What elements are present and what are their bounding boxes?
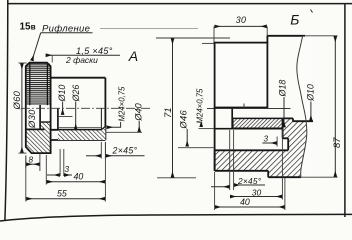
dimension 2×45° (A) [100,142,102,159]
svg-text:Ø10: Ø10 [57,85,67,103]
dimension 87 [334,36,336,176]
dimension 3 (Б) [276,137,278,147]
svg-text:40: 40 [240,197,250,207]
head outline strokes [26,63,51,154]
thread groove right wall [57,109,59,130]
svg-text:55: 55 [57,188,67,198]
small tick near Б [311,10,313,13]
svg-text:2×45°: 2×45° [112,146,138,156]
dimension 2×45° (Б) [229,130,231,190]
svg-text:А: А [128,48,138,64]
svg-text:M24×0,75: M24×0,75 [196,88,205,124]
Ø30 bore bottom line [26,128,45,130]
dimension 3 (A) [59,149,61,176]
svg-text:Ø40: Ø40 [133,102,143,121]
housing mass (sectioned, broken by wavy line) [215,118,309,177]
svg-text:Ø26: Ø26 [71,85,81,103]
dimension 30 (top) [213,26,215,44]
dimension 40 (Б bottom) [284,178,286,210]
housing top edge right of neck [266,36,268,43]
white mask right of break line [297,37,313,178]
Ø10 hole silhouette line [58,116,73,118]
dimension 40 (A) [45,155,47,185]
thread end vertical line [100,109,102,130]
knurling fill (top half) [27,64,50,105]
svg-text:Б: Б [290,12,299,28]
svg-text:3: 3 [264,134,269,143]
svg-text:30: 30 [236,15,246,25]
bushing flange sectioned strip [233,118,283,128]
svg-text:Ø18: Ø18 [277,80,287,98]
svg-text:71: 71 [163,107,174,118]
svg-text:30: 30 [252,187,262,197]
svg-text:40: 40 [74,172,84,182]
body section hatch [58,127,106,140]
svg-text:15в: 15в [20,22,36,33]
svg-text:M24×0,75: M24×0,75 [118,86,127,122]
svg-text:87: 87 [331,137,342,148]
svg-text:Ø30: Ø30 [26,109,37,129]
svg-text:8: 8 [29,155,34,164]
svg-text:Ø10: Ø10 [305,84,315,102]
thin ledge line left of neck [202,42,215,44]
dimension 8 [25,156,27,168]
housing outline [215,118,313,177]
svg-text:2 фаски: 2 фаски [65,55,98,65]
knurled head Ø60 outline [26,63,51,154]
svg-text:Ø60: Ø60 [11,90,22,110]
wavy break line [297,36,307,177]
flange bottom edge full width [215,128,283,130]
Ø10 hole bottom line in head [41,121,51,123]
thread bore line [51,129,102,131]
thread end chamfer cone [101,127,105,130]
neck bottom thin line [207,108,291,110]
head chamfer lines [29,63,31,105]
centerline of part A [21,107,150,109]
faint stray scan line [100,28,198,30]
Ø30 bore step line [39,105,41,130]
svg-text:3: 3 [65,165,70,174]
flange inner wall vertical [231,109,233,129]
dimension Ø60 [19,62,27,64]
dimension 55 [25,156,27,202]
body Ø40 of part A [51,77,106,79]
head section hatch (lower half) [41,122,51,130]
center tick [243,104,245,109]
dimension 30 (Б bottom) [281,129,283,200]
svg-text:2×45°: 2×45° [237,176,262,186]
thread thin major line [58,127,102,129]
bushing neck [215,43,268,108]
svg-text:Ø46: Ø46 [177,109,188,129]
dimension 71 [156,37,230,39]
left face of Б lower assembly [214,108,216,171]
